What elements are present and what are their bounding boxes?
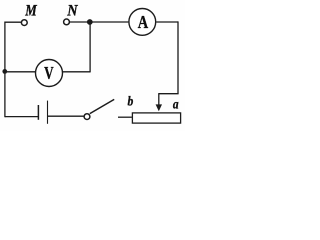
wire: left vertical [4,22,6,118]
wire: battery to switch [48,115,85,117]
svg-text:A: A [138,12,148,32]
rheostat wiper arrow [158,93,160,105]
wire: bottom-left horizontal to battery [5,116,39,118]
rheostat R: resistance box [132,113,180,123]
terminal N (open circle) [64,19,70,25]
battery cell: long thin plate (positive) [47,101,49,124]
svg-text:V: V [44,63,54,83]
terminal M (open circle) [21,20,27,26]
svg-text:M: M [24,2,37,19]
wire: horizontal to rheostat wiper [159,93,179,95]
wire: junction to ammeter [90,21,128,23]
battery cell: short thick plate (negative) [37,105,39,120]
wire: rheostat lead to switch [118,116,132,118]
wire: voltmeter to right branch corner [63,71,90,73]
wire: junction to voltmeter [5,71,35,73]
ammeter U: circle [129,9,156,36]
wire: ammeter to top-right corner [156,21,178,23]
svg-text:a: a [173,97,179,112]
wire: right vertical [177,21,179,93]
switch pivot terminal (open circle) [84,114,90,120]
wire: top-left horizontal from corner to terminal M [5,21,22,23]
svg-text:b: b [128,94,134,109]
junction dot (node at N branch) [87,19,93,25]
wire: terminal N to junction [69,21,90,23]
wire: branch vertical up to junction [89,22,91,72]
switch S: blade (open) [90,99,114,113]
svg-text:N: N [66,2,78,19]
voltmeter U: circle [36,60,63,87]
junction dot (node at voltmeter branch) [2,69,7,74]
